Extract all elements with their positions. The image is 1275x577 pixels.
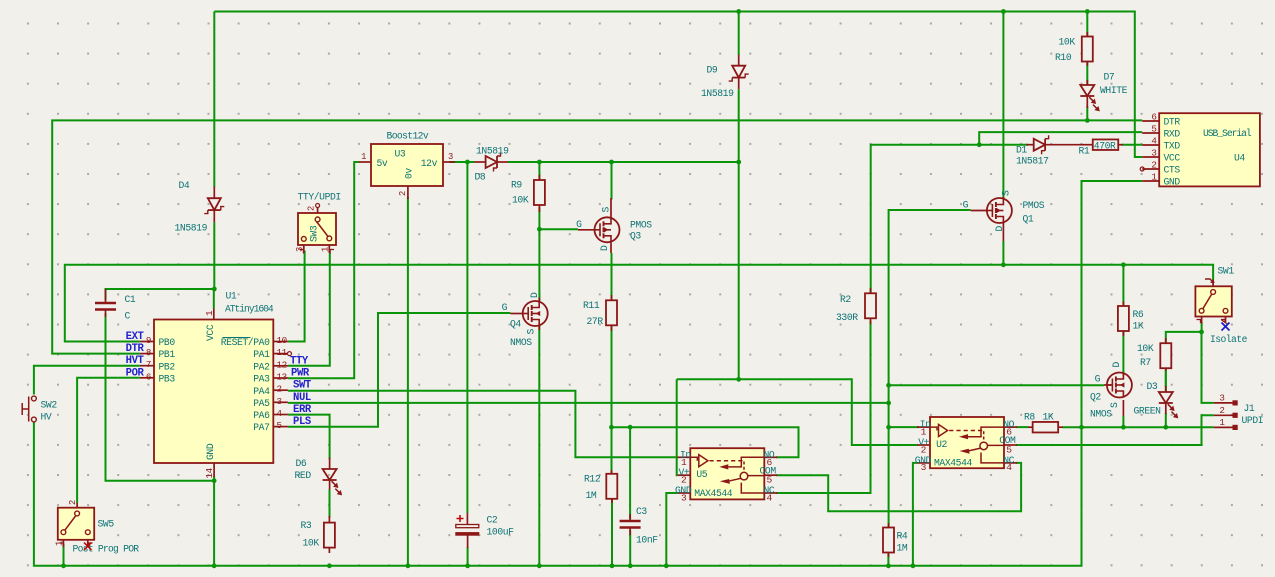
wire PLS to Q4 gate <box>288 313 511 427</box>
svg-text:C2: C2 <box>487 515 498 526</box>
wire Q2 source to GND row <box>1122 416 1124 427</box>
wire R7 to D3 <box>1165 368 1167 393</box>
junction at 467.4,162 <box>465 160 470 165</box>
svg-text:D: D <box>1111 362 1122 368</box>
svg-text:10: 10 <box>277 335 287 346</box>
svg-text:R1: R1 <box>1079 146 1090 157</box>
svg-text:5v: 5v <box>377 158 388 169</box>
wire U2 NO to R8 <box>1016 426 1028 428</box>
svg-text:6: 6 <box>1151 112 1156 123</box>
analog switch U5 MAX4544 <box>690 448 764 499</box>
switch SW5 Post Prog POR <box>76 503 78 514</box>
wire U1 GND to rail <box>213 476 215 566</box>
svg-text:USB_Serial: USB_Serial <box>1203 128 1252 139</box>
transistor Q3 PMOS <box>610 198 612 218</box>
svg-text:G: G <box>1095 374 1101 385</box>
svg-text:GND: GND <box>1164 177 1181 188</box>
svg-text:2: 2 <box>1151 160 1156 171</box>
svg-text:1N5819: 1N5819 <box>476 146 509 157</box>
wire R12 bottom to rail <box>611 498 613 566</box>
junction at 666.3,565.8 <box>664 563 669 568</box>
svg-text:D8: D8 <box>475 172 486 183</box>
svg-text:S: S <box>526 329 537 335</box>
svg-text:R2: R2 <box>840 294 851 305</box>
junction at 1087.3,11.5 <box>1085 9 1090 14</box>
junction at 1003.4,264.8 <box>1001 262 1006 267</box>
svg-text:1: 1 <box>681 457 687 468</box>
svg-text:1K: 1K <box>1043 412 1054 423</box>
IC U1 ATtiny1604 <box>154 320 273 464</box>
svg-text:VCC: VCC <box>1164 153 1181 164</box>
svg-text:14: 14 <box>204 467 215 478</box>
junction at 539.4,162 <box>537 160 542 165</box>
svg-text:SW1: SW1 <box>1218 266 1235 277</box>
wire DTR net U1.PB1 to U4.DTR <box>52 120 1142 353</box>
svg-text:SWT: SWT <box>293 380 312 392</box>
svg-text:G: G <box>576 219 582 230</box>
svg-text:HV: HV <box>41 412 52 423</box>
wire Q1 source from 5V rail <box>1002 12 1004 199</box>
svg-text:S: S <box>601 207 612 213</box>
junction at 407.9,565.8 <box>406 563 411 568</box>
svg-text:D: D <box>529 292 540 298</box>
wire SW5 pin1 to rail <box>63 544 65 566</box>
svg-text:PLS: PLS <box>293 416 312 428</box>
svg-text:0v: 0v <box>404 168 415 179</box>
svg-text:PA7: PA7 <box>253 422 270 433</box>
wire D9 column / V+ net <box>738 12 740 56</box>
junction at 888.6,427.2 <box>886 425 891 430</box>
wire U5 GND to rail <box>666 493 677 566</box>
svg-text:NMOS: NMOS <box>1090 409 1112 420</box>
wire EXT net <box>65 265 1213 342</box>
svg-text:RED: RED <box>295 470 312 481</box>
junction at 738.7,162 <box>736 160 741 165</box>
LED D3 GREEN <box>1165 386 1167 393</box>
svg-text:PA2: PA2 <box>253 361 270 372</box>
junction at 738.7,379.3 <box>736 377 741 382</box>
svg-text:5: 5 <box>767 475 773 486</box>
svg-text:D1: D1 <box>1016 145 1027 156</box>
resistor R4 1M <box>888 523 890 529</box>
svg-text:2: 2 <box>681 475 687 486</box>
wire 5V top rail <box>214 12 1142 158</box>
resistor R8 1K <box>1028 426 1033 428</box>
junction at 1123.4,264.8 <box>1121 262 1126 267</box>
svg-text:1: 1 <box>321 247 331 252</box>
junction at 738.7,11.5 <box>736 9 741 14</box>
wire U2 In <box>889 426 919 428</box>
svg-text:1N5817: 1N5817 <box>1016 156 1049 167</box>
wire R11/R12 tap to U5 NO <box>612 427 799 457</box>
wire Q3 source <box>611 162 613 200</box>
svg-text:R10: R10 <box>1055 52 1072 63</box>
junction at 214.3,289 <box>212 287 217 292</box>
svg-text:6: 6 <box>1006 427 1012 438</box>
svg-text:HVT: HVT <box>126 355 145 367</box>
svg-text:9: 9 <box>146 335 151 346</box>
svg-text:2: 2 <box>921 444 927 455</box>
svg-text:PB3: PB3 <box>159 373 176 384</box>
resistor R12 1M <box>611 470 613 475</box>
svg-text:U5: U5 <box>696 469 707 480</box>
transistor Q4 NMOS <box>538 298 540 302</box>
switch SW1 Isolate <box>1212 280 1214 292</box>
junction at 979.2,144.7 <box>977 142 982 147</box>
svg-text:UPDI: UPDI <box>1242 415 1264 426</box>
junction at 539.4,229.2 <box>537 227 542 232</box>
resistor R9 10K <box>538 175 540 181</box>
wire D7 to DTR <box>1086 106 1088 120</box>
wire U5 COM to U2 NC <box>776 463 1021 511</box>
junction at 329.4,565.8 <box>327 563 332 568</box>
svg-text:G: G <box>963 200 969 211</box>
svg-text:100uF: 100uF <box>487 527 515 538</box>
connector J1 UPDI <box>1214 402 1237 404</box>
svg-text:EXT: EXT <box>126 331 145 343</box>
svg-text:4: 4 <box>767 492 773 503</box>
svg-text:U1: U1 <box>226 291 237 302</box>
wire Q4 source to rail <box>538 326 540 566</box>
svg-text:PA3: PA3 <box>253 374 270 385</box>
svg-text:Q2: Q2 <box>1090 392 1101 403</box>
svg-text:6: 6 <box>767 457 773 468</box>
diode D1 1N5817 <box>1027 144 1035 146</box>
svg-text:GREEN: GREEN <box>1134 406 1162 417</box>
svg-text:1: 1 <box>921 427 927 438</box>
transistor Q1 PMOS <box>1002 197 1004 199</box>
svg-text:DTR: DTR <box>126 343 145 355</box>
svg-text:ATtiny1604: ATtiny1604 <box>225 304 274 315</box>
svg-text:MAX4544: MAX4544 <box>694 488 732 499</box>
svg-text:2: 2 <box>307 206 317 211</box>
svg-text:S: S <box>1109 402 1120 408</box>
wire TTY to SW3 pin1 <box>288 251 330 366</box>
capacitor C1 <box>105 289 107 303</box>
svg-text:10K: 10K <box>303 538 320 549</box>
svg-text:CTS: CTS <box>1164 165 1181 176</box>
junction at 214.1,565.8 <box>212 563 217 568</box>
svg-text:1: 1 <box>55 541 65 546</box>
svg-text:RESET/PA0: RESET/PA0 <box>221 337 270 348</box>
wire Q3 drain to R11 <box>611 253 613 301</box>
junction at 630.2,565.8 <box>628 563 633 568</box>
svg-text:POR: POR <box>126 367 145 379</box>
wire Q4 drain from Q3 gate junction <box>538 229 540 301</box>
svg-text:Q3: Q3 <box>630 231 641 242</box>
svg-text:10K: 10K <box>512 195 529 206</box>
svg-text:C1: C1 <box>125 294 136 305</box>
svg-text:U3: U3 <box>395 149 406 160</box>
svg-text:PMOS: PMOS <box>630 220 652 231</box>
svg-text:R8: R8 <box>1024 412 1035 423</box>
svg-text:10K: 10K <box>1137 343 1154 354</box>
svg-text:U2: U2 <box>936 439 947 450</box>
wire U2 GND to rail <box>913 463 917 566</box>
wire 12v rail <box>449 161 474 163</box>
wire U5 NC to R2 <box>776 321 871 494</box>
svg-text:11: 11 <box>277 347 288 358</box>
svg-text:RXD: RXD <box>1164 129 1181 140</box>
wire RXD <box>979 132 1142 145</box>
junction at 888.6,402.9 <box>886 401 891 406</box>
no-connect blue X at SW1 <box>1222 323 1230 331</box>
svg-text:Post Prog POR: Post Prog POR <box>73 544 140 555</box>
svg-text:3: 3 <box>277 396 282 407</box>
junction at 1081.5,427.2 <box>1079 425 1084 430</box>
svg-text:R4: R4 <box>897 531 908 542</box>
wire SW1 pin1 to R7/J1 pin3 junction <box>1201 322 1203 332</box>
svg-text:MAX4544: MAX4544 <box>934 458 972 469</box>
junction at 1003.4,11.5 <box>1001 9 1006 14</box>
junction at 612,565.8 <box>610 563 615 568</box>
svg-text:27R: 27R <box>587 316 604 327</box>
svg-text:10K: 10K <box>1059 37 1076 48</box>
svg-text:1: 1 <box>361 152 366 162</box>
wire R10 to D7 <box>1086 61 1088 85</box>
junction at 888.4,565.8 <box>886 563 891 568</box>
resistor R2 330R <box>870 288 872 294</box>
wire R6 to Q2 drain <box>1122 331 1124 374</box>
svg-text:10nF: 10nF <box>636 535 658 546</box>
svg-text:VCC: VCC <box>205 324 216 341</box>
wire R7 top to SW1 junction <box>1166 332 1214 403</box>
svg-text:2: 2 <box>1219 405 1224 416</box>
svg-text:12v: 12v <box>421 158 438 169</box>
junction at 539.3,565.8 <box>537 563 542 568</box>
junction at 1087.3,120.4 <box>1085 118 1090 123</box>
svg-text:D4: D4 <box>179 180 190 191</box>
svg-text:PB2: PB2 <box>159 361 176 372</box>
wire SW2 to GND rail <box>34 181 1142 566</box>
svg-text:PMOS: PMOS <box>1023 200 1045 211</box>
svg-text:Q4: Q4 <box>510 319 521 330</box>
wire Q1 gate from NUL column <box>889 210 971 403</box>
svg-text:WHITE: WHITE <box>1100 85 1128 96</box>
svg-text:4: 4 <box>1151 136 1157 147</box>
junction at 611.5,427.2 <box>609 425 614 430</box>
svg-text:SW2: SW2 <box>41 400 58 411</box>
switch SW2 HV push button <box>22 397 29 422</box>
svg-text:TTY/UPDI: TTY/UPDI <box>298 192 341 203</box>
resistor R11 27R <box>611 295 613 301</box>
svg-text:NUL: NUL <box>293 392 311 404</box>
junction at 630.1,427.2 <box>628 425 633 430</box>
svg-text:ERR: ERR <box>293 404 312 416</box>
diode D9 1N5819 <box>738 55 740 66</box>
svg-text:330R: 330R <box>836 312 858 323</box>
resistor R7 10K <box>1165 338 1167 344</box>
svg-text:PA6: PA6 <box>253 410 270 421</box>
wire ERR to D6 <box>288 415 330 459</box>
svg-text:470R: 470R <box>1094 140 1116 151</box>
svg-text:3: 3 <box>295 247 305 252</box>
svg-text:D3: D3 <box>1147 381 1158 392</box>
wire Q2 gate <box>889 384 1104 386</box>
wire C2 column <box>466 162 468 513</box>
svg-text:2: 2 <box>277 384 282 395</box>
svg-text:J1: J1 <box>1244 403 1255 414</box>
svg-text:D: D <box>994 226 1005 232</box>
wire V+ distribution <box>677 379 918 445</box>
IC U4 USB_Serial <box>1159 113 1260 186</box>
wire U2 COM to J1 pin2 <box>1016 415 1214 445</box>
transistor Q2 NMOS <box>1122 373 1124 376</box>
svg-text:R9: R9 <box>511 180 522 191</box>
junction at 214.1,480.7 <box>212 478 217 483</box>
diode D8 1N5819 <box>486 156 497 168</box>
junction at 888.6,385.3 <box>886 383 891 388</box>
svg-text:12: 12 <box>277 359 287 370</box>
capacitor C2 100uF polarized <box>466 513 468 525</box>
svg-text:13: 13 <box>277 372 287 383</box>
svg-text:1: 1 <box>1151 172 1157 183</box>
svg-text:TXD: TXD <box>1164 141 1181 152</box>
analog switch U2 MAX4544 <box>930 417 1004 468</box>
svg-text:DTR: DTR <box>1164 117 1181 128</box>
svg-text:PA4: PA4 <box>253 386 270 397</box>
svg-text:U4: U4 <box>1234 153 1245 164</box>
wire HVT to SW2 <box>34 366 140 395</box>
svg-text:PA1: PA1 <box>253 349 270 360</box>
svg-text:1K: 1K <box>1133 321 1144 332</box>
junction at 1123.4,427.2 <box>1121 425 1126 430</box>
wire U3 pin2 to rail <box>407 197 409 566</box>
svg-text:D9: D9 <box>707 65 718 76</box>
svg-text:PB1: PB1 <box>159 349 176 360</box>
svg-text:C: C <box>125 311 131 322</box>
svg-text:1N5819: 1N5819 <box>175 222 208 233</box>
wire NUL column down to R4 <box>888 403 890 529</box>
svg-text:7: 7 <box>146 359 151 370</box>
svg-text:R6: R6 <box>1133 309 1144 320</box>
svg-text:D7: D7 <box>1104 72 1115 83</box>
junction at 63.5,565.8 <box>61 563 66 568</box>
svg-text:NMOS: NMOS <box>510 337 532 348</box>
svg-text:C3: C3 <box>636 506 647 517</box>
svg-text:4: 4 <box>1006 462 1012 473</box>
svg-text:1M: 1M <box>897 543 908 554</box>
no-connect X at SW5 pin3 <box>84 543 92 551</box>
svg-text:Q1: Q1 <box>1023 214 1034 225</box>
svg-text:PB0: PB0 <box>159 337 176 348</box>
resistor R10 10K <box>1086 32 1088 37</box>
wire RESET to SW3 pin3 <box>288 251 305 342</box>
wire 12v output <box>288 162 359 378</box>
svg-text:3: 3 <box>921 462 927 473</box>
junction at 611.5,162 <box>609 160 614 165</box>
regulator U3 Boost12v <box>371 144 443 186</box>
svg-text:PWR: PWR <box>291 368 310 380</box>
wire SWT net <box>288 391 677 458</box>
svg-text:5: 5 <box>1006 444 1012 455</box>
svg-text:D: D <box>599 245 610 251</box>
wire D3 to GND row <box>1165 413 1167 427</box>
svg-text:PA5: PA5 <box>253 398 270 409</box>
diode D4 <box>208 198 221 210</box>
svg-text:R12: R12 <box>584 474 601 485</box>
junction at 1201.5,331.9 <box>1199 330 1204 335</box>
LED D7 WHITE <box>1086 80 1088 85</box>
svg-text:Isolate: Isolate <box>1210 334 1248 345</box>
capacitor C3 10nF <box>629 514 631 521</box>
svg-text:D6: D6 <box>296 458 307 469</box>
wire Q1 drain to EXT <box>1002 241 1004 265</box>
svg-text:1: 1 <box>1219 417 1225 428</box>
svg-text:2: 2 <box>68 500 78 505</box>
wire R11 bottom to R12 <box>611 324 613 475</box>
junction at 1165.8,427.2 <box>1163 425 1168 430</box>
svg-text:GND: GND <box>205 443 216 460</box>
wire POR to SW5 <box>77 378 140 503</box>
svg-text:SW3: SW3 <box>309 225 320 242</box>
svg-text:R3: R3 <box>301 520 312 531</box>
svg-text:Boost12v: Boost12v <box>387 131 429 142</box>
svg-text:3: 3 <box>1151 148 1156 159</box>
svg-text:8: 8 <box>146 347 151 358</box>
wire R10 top <box>1086 12 1088 38</box>
wire C3 column <box>629 427 631 519</box>
wire VCC C1 to D4 junction <box>106 289 215 300</box>
svg-text:TTY: TTY <box>290 355 309 367</box>
svg-text:1M: 1M <box>586 490 597 501</box>
svg-text:6: 6 <box>146 371 151 382</box>
svg-text:2: 2 <box>398 191 408 196</box>
svg-text:3: 3 <box>1219 393 1224 404</box>
svg-text:1N5819: 1N5819 <box>701 88 734 99</box>
svg-text:S: S <box>1001 190 1012 196</box>
junction at 912.9,565.8 <box>911 563 916 568</box>
resistor R3 10K <box>329 490 331 518</box>
svg-text:5: 5 <box>277 420 282 431</box>
svg-text:G: G <box>502 302 508 313</box>
resistor R1 470R <box>1081 144 1093 146</box>
switch SW3 TTY/UPDI <box>317 208 319 220</box>
svg-text:4: 4 <box>277 408 283 419</box>
svg-text:1: 1 <box>204 310 215 316</box>
wire NUL net <box>288 402 889 404</box>
svg-text:5: 5 <box>1151 124 1156 135</box>
svg-text:3: 3 <box>681 492 687 503</box>
wire R8 to J1 pin1 / GND row <box>1063 426 1214 428</box>
wire Q3 gate from R9 <box>539 207 578 229</box>
junction at 467.6,565.8 <box>465 563 470 568</box>
LED D6 RED <box>329 458 331 470</box>
resistor R6 1K <box>1122 302 1124 308</box>
wire TXD right of R1 <box>1122 144 1143 146</box>
svg-text:3: 3 <box>448 152 453 162</box>
wire C1 bottom to U1 GND <box>106 313 215 481</box>
svg-text:R7: R7 <box>1140 357 1151 368</box>
svg-text:SW5: SW5 <box>98 519 115 530</box>
wire R6 top from EXT <box>1122 265 1124 307</box>
svg-text:R11: R11 <box>583 300 600 311</box>
wire TXD-R2 branch <box>871 145 1028 294</box>
wire D4 column <box>213 12 215 188</box>
wire R9 top <box>538 162 540 181</box>
